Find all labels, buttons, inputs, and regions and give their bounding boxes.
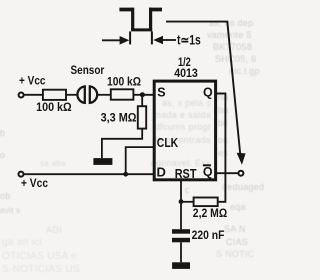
node junction CLK/rail (123, 172, 128, 177)
svg-text:Sensor: Sensor (71, 63, 105, 77)
svg-text:ldfcums progr: ldfcums progr (153, 122, 211, 132)
svg-text:as, s pela s: as, s pela s (162, 98, 211, 108)
svg-text:SHC05, 6: SHC05, 6 (215, 54, 256, 64)
sensor electrode left (77, 86, 84, 103)
dimension tick left (129, 31, 131, 44)
terminal +Vcc bottom (19, 172, 24, 177)
svg-text:nic.l.gp: nic.l.gp (229, 66, 260, 76)
wire Q-bar to output terminal (216, 172, 239, 174)
svg-text:4013: 4013 (174, 66, 198, 80)
svg-text:t≃1s: t≃1s (177, 33, 201, 48)
svg-text:ga an ici: ga an ici (2, 237, 42, 248)
wire junction down to capacitor (180, 202, 182, 230)
node junction RST (179, 199, 184, 204)
svg-text:S-NOTICIAS US: S-NOTICIAS US (2, 264, 80, 275)
svg-text:c: c (185, 185, 190, 195)
svg-text:+ Vcc: + Vcc (21, 178, 49, 190)
IC U1 1/2 4013 box (154, 81, 215, 180)
resistor 2.2M (194, 198, 218, 207)
wire (24, 94, 43, 96)
capacitor 220nF plate bottom (172, 238, 190, 243)
svg-text:100 kΩ: 100 kΩ (36, 100, 72, 114)
resistor 100k sensor side (111, 89, 134, 99)
svg-text:as, os dep: as, os dep (209, 18, 254, 28)
svg-text:D: D (157, 165, 166, 180)
sensor electrode right (90, 86, 97, 103)
dimension arrow left (102, 39, 121, 41)
dimension arrow right (153, 36, 163, 45)
svg-text:100 kΩ: 100 kΩ (107, 74, 141, 88)
waveform: negative pulse (119, 8, 162, 12)
wire RST down (180, 180, 182, 202)
svg-text:mada e saida: mada e saida (153, 110, 211, 120)
ground (sensor divider) (93, 158, 112, 165)
svg-text:os: os (218, 135, 228, 145)
svg-text:S NOTIC: S NOTIC (216, 249, 255, 259)
svg-text:es: es (218, 148, 228, 158)
faint scan bleed-through text (decorative) (0, 18, 264, 275)
wire junction to 2.2M (181, 201, 194, 203)
svg-text:BK77058: BK77058 (213, 42, 252, 52)
wire to S pin (133, 94, 154, 96)
wire Vcc rail to D pin (24, 173, 154, 175)
svg-text:3,3 MΩ: 3,3 MΩ (101, 111, 137, 125)
wire (98, 94, 111, 96)
wire Q output to 2.2M (right vertical) (216, 94, 226, 202)
svg-text:ob: ob (0, 191, 11, 201)
resistor 100k input (43, 90, 66, 100)
output terminal (238, 171, 243, 176)
svg-text:Q: Q (203, 165, 213, 179)
svg-text:ba: ba (218, 105, 229, 115)
svg-text:CIAS: CIAS (226, 237, 248, 247)
wire capacitor to ground (180, 242, 182, 262)
wire (66, 94, 77, 96)
svg-text:b: b (0, 128, 5, 138)
svg-text:avit s: avit s (0, 206, 20, 215)
wire down to 3.3M (141, 95, 143, 106)
svg-text:Q: Q (203, 85, 213, 99)
svg-text:o: o (0, 150, 5, 160)
wire 3.3M to ground (102, 129, 142, 159)
svg-text:deduaged: deduaged (222, 182, 264, 192)
svg-text:bli: bli (218, 118, 228, 128)
svg-text:S: S (157, 85, 165, 99)
terminal +Vcc top (19, 93, 24, 98)
resistor 3.3M (138, 106, 146, 128)
svg-text:CLK: CLK (157, 135, 179, 150)
wire from waveform to output (annotation) (166, 22, 240, 155)
svg-text:SA N: SA N (224, 224, 246, 234)
svg-text:RST: RST (175, 167, 197, 181)
svg-text:2,2 MΩ: 2,2 MΩ (193, 206, 228, 220)
wire CLK to Vcc rail (126, 147, 154, 174)
capacitor 220nF plate top (172, 229, 190, 234)
arrowhead pointing to output (237, 153, 246, 165)
svg-text:220 nF: 220 nF (192, 228, 225, 242)
svg-text:sa aba: sa aba (40, 159, 66, 168)
svg-text:+ Vcc: + Vcc (19, 76, 46, 88)
svg-text:OTICIAS USA e: OTICIAS USA e (2, 251, 77, 262)
svg-text:eqa: eqa (230, 202, 246, 212)
node junction at S (140, 92, 145, 97)
dimension tick right (151, 31, 153, 44)
ground (timing capacitor) (172, 262, 190, 269)
svg-text:ADI: ADI (46, 225, 62, 235)
